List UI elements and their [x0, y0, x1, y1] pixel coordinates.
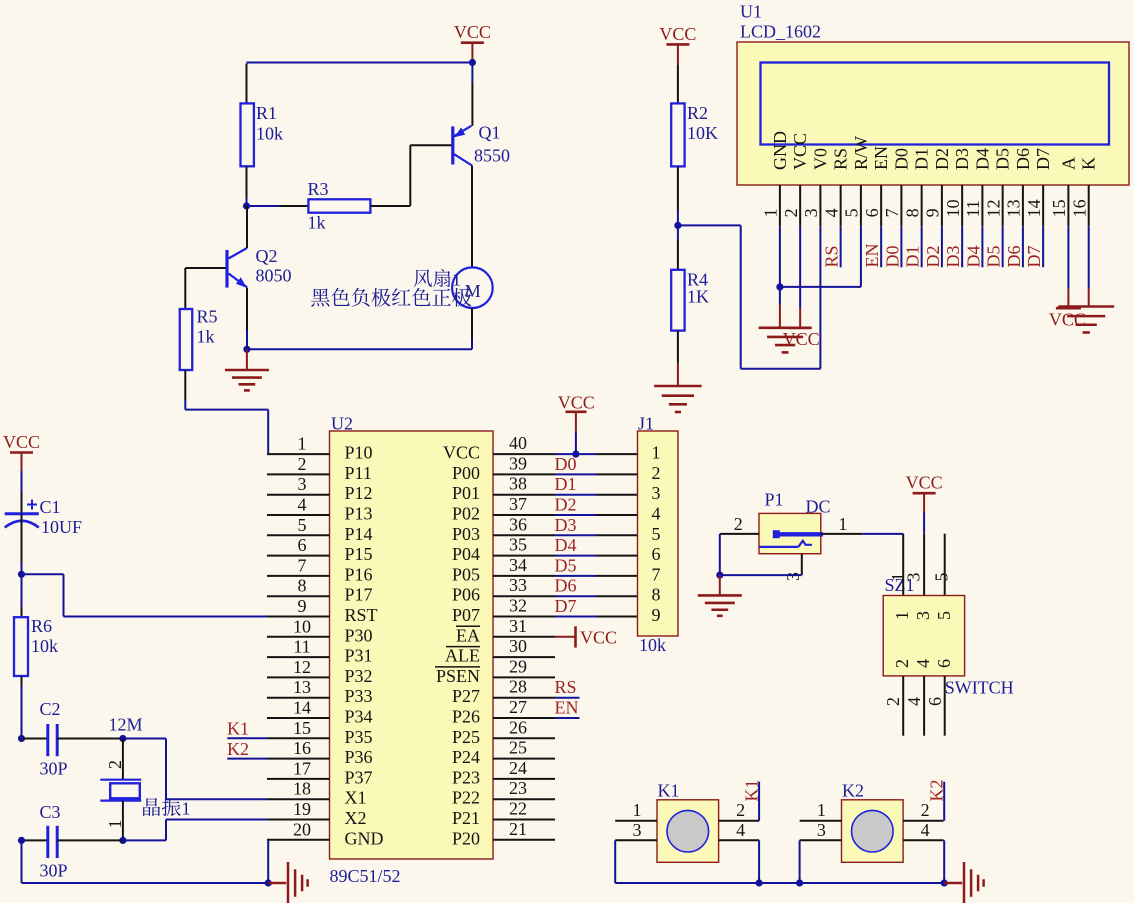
node R1/R3/Q2 [243, 202, 250, 209]
wire K1 pin3 to bus [614, 840, 616, 883]
svg-text:P13: P13 [345, 504, 373, 524]
LCD pin7 D0 net stub [900, 226, 902, 267]
svg-text:RS: RS [822, 245, 842, 267]
SZ1 pin 2 bottom [902, 676, 904, 736]
svg-text:P06: P06 [452, 585, 480, 605]
wire R3 to Q1 base [370, 205, 410, 207]
svg-text:R1: R1 [256, 103, 277, 123]
svg-text:D1: D1 [912, 148, 932, 170]
node crystal bottom [119, 837, 126, 844]
svg-text:P35: P35 [345, 727, 373, 747]
svg-text:8: 8 [652, 585, 661, 605]
LCD pin8 D1 net stub [921, 226, 923, 267]
LCD pin10 D3 net stub [961, 226, 963, 267]
svg-text:D5: D5 [555, 555, 577, 575]
svg-text:7: 7 [298, 555, 307, 575]
node Q2 emitter/ground [243, 346, 250, 353]
svg-text:2: 2 [736, 800, 745, 820]
svg-text:P12: P12 [345, 483, 373, 503]
U2 pin 36 P03 [493, 534, 555, 536]
ground (fan circuit) [246, 349, 248, 370]
svg-text:K2: K2 [227, 739, 249, 759]
SZ1 pin 5 top [944, 534, 946, 596]
wire U2 pin40 to J1 pin1 [555, 453, 597, 455]
svg-text:P31: P31 [345, 646, 373, 666]
svg-text:8: 8 [902, 208, 922, 217]
svg-text:VCC: VCC [790, 133, 810, 170]
wire R4 bottom lead [677, 331, 679, 364]
node crystal top [119, 735, 126, 742]
svg-text:2: 2 [883, 697, 903, 706]
resistor R1 [241, 103, 254, 166]
U2 pin 40 VCC [493, 453, 555, 455]
wire U2 pin32 to J1 pin9 [555, 616, 597, 618]
U2 pin 23 P22 [493, 798, 555, 800]
wire Q2 collector [246, 206, 248, 248]
svg-text:P21: P21 [452, 808, 480, 828]
svg-text:D3: D3 [555, 515, 577, 535]
svg-text:P24: P24 [452, 747, 480, 767]
U2 pin 39 P00 [493, 473, 555, 475]
switch SZ1 body [883, 596, 964, 676]
LCD pin13 D6 net stub [1022, 226, 1024, 267]
svg-text:2: 2 [781, 208, 801, 217]
wire motor to Q2 emitter node [247, 348, 472, 350]
svg-text:35: 35 [509, 535, 527, 555]
svg-text:18: 18 [293, 779, 311, 799]
svg-text:D6: D6 [1013, 148, 1033, 170]
svg-text:P34: P34 [345, 707, 373, 727]
svg-text:1: 1 [452, 270, 461, 290]
svg-text:2: 2 [892, 659, 912, 668]
svg-text:5: 5 [652, 524, 661, 544]
U2 pin 24 P23 [493, 778, 555, 780]
node V0 divider [674, 222, 681, 229]
svg-text:D4: D4 [555, 535, 577, 555]
wire U2 pin34 to J1 pin7 [555, 575, 597, 577]
label crystal name [143, 798, 160, 816]
svg-text:1: 1 [892, 611, 912, 620]
svg-text:P30: P30 [345, 625, 373, 645]
net label EN (pin27) [555, 717, 580, 719]
wire crystal top lead [122, 739, 124, 780]
ground (R4) [677, 364, 679, 386]
svg-text:K1: K1 [658, 781, 680, 801]
U2 pin 16 P36 [267, 758, 330, 760]
U2 pin 34 P05 [493, 575, 555, 577]
svg-text:7: 7 [882, 208, 902, 217]
U2 pin 31 EA [493, 636, 555, 638]
wire Q1 collector to motor [471, 166, 473, 268]
U2 pin 3 P12 [267, 494, 330, 496]
svg-text:19: 19 [293, 799, 311, 819]
capacitor C2 30P [22, 738, 48, 740]
svg-text:K: K [1079, 157, 1099, 170]
U2 pin 22 P21 [493, 819, 555, 821]
svg-text:K2: K2 [926, 780, 946, 802]
svg-text:9: 9 [652, 605, 661, 625]
U2 pin 26 P25 [493, 737, 555, 739]
wire C1 top lead [21, 471, 23, 492]
svg-text:1K: 1K [687, 287, 709, 307]
svg-text:P32: P32 [345, 666, 373, 686]
node GND bus [265, 879, 272, 886]
svg-text:D0: D0 [891, 148, 911, 170]
svg-text:17: 17 [293, 758, 311, 778]
svg-text:D2: D2 [555, 495, 577, 515]
wire crystal top to X1 [123, 738, 166, 740]
svg-text:29: 29 [509, 656, 527, 676]
U2 pin 6 P15 [267, 555, 330, 557]
svg-text:13: 13 [293, 677, 311, 697]
svg-text:P27: P27 [452, 686, 480, 706]
svg-text:89C51/52: 89C51/52 [330, 866, 401, 886]
wire R1 top lead [246, 64, 248, 104]
svg-text:D7: D7 [555, 596, 577, 616]
svg-text:9: 9 [923, 208, 943, 217]
wire K2 pin4 to bus [943, 840, 945, 883]
wire P1 pin2 down [719, 534, 721, 575]
wire X1 (pin18) [166, 798, 267, 800]
SZ1 pin 1 top [902, 534, 904, 596]
U2 pin 5 P14 [267, 534, 330, 536]
svg-text:8550: 8550 [474, 146, 510, 166]
U2 pin 14 P34 [267, 717, 330, 719]
svg-text:VCC: VCC [783, 329, 820, 349]
svg-text:P25: P25 [452, 727, 480, 747]
node VCC pin40 [572, 451, 579, 458]
U2 pin 30 ALE [493, 656, 555, 658]
LCD pin3 V0 wire [819, 226, 821, 368]
capacitor C1 10UF polarized [5, 512, 39, 515]
svg-text:D5: D5 [984, 246, 1004, 268]
U2 pin 8 P17 [267, 595, 330, 597]
wire R5 bottom to U2 pin1 [184, 370, 186, 400]
wire P1 pin3 to ground node [720, 574, 802, 576]
U2 pin 29 PSEN [493, 676, 555, 678]
LCD U1 body [737, 42, 1129, 185]
svg-text:P17: P17 [345, 585, 373, 605]
U2 pin 9 RST [267, 616, 330, 618]
svg-text:P16: P16 [345, 564, 373, 584]
svg-text:12: 12 [293, 657, 311, 677]
button K2 body [842, 800, 904, 863]
svg-text:34: 34 [509, 555, 527, 575]
svg-text:C2: C2 [40, 699, 61, 719]
svg-text:1: 1 [652, 443, 661, 463]
svg-text:R6: R6 [31, 616, 52, 636]
svg-text:4: 4 [298, 495, 307, 515]
wire node to RST [22, 573, 64, 575]
wire crystal bottom lead [122, 801, 124, 841]
svg-text:10k: 10k [31, 636, 58, 656]
svg-text:VCC: VCC [443, 443, 480, 463]
svg-text:1k: 1k [308, 213, 326, 233]
U2 pin 25 P24 [493, 758, 555, 760]
SZ1 pin 6 bottom [944, 676, 946, 736]
svg-text:2: 2 [734, 514, 743, 534]
svg-text:20: 20 [293, 819, 311, 839]
svg-text:1: 1 [838, 514, 847, 534]
svg-text:3: 3 [801, 208, 821, 217]
node K2 pin3 bus [796, 879, 803, 886]
U2 pin 4 P13 [267, 514, 330, 516]
svg-text:7: 7 [652, 564, 661, 584]
svg-text:1: 1 [633, 800, 642, 820]
LCD screen rectangle [761, 63, 1110, 145]
svg-text:2: 2 [652, 463, 661, 483]
svg-text:R2: R2 [687, 103, 708, 123]
SZ1 pin 3 top [923, 534, 925, 596]
wire U2 pin37 to J1 pin4 [555, 514, 597, 516]
svg-text:P36: P36 [345, 747, 373, 767]
U2 pin 11 P31 [267, 656, 330, 658]
wire node to R3 [247, 205, 280, 207]
resistor R3 [308, 199, 370, 212]
svg-text:K1: K1 [741, 780, 761, 802]
svg-text:RS: RS [555, 677, 577, 697]
ground (LCD pin1) [779, 305, 781, 328]
svg-text:21: 21 [509, 819, 527, 839]
svg-text:3: 3 [633, 820, 642, 840]
svg-text:16: 16 [293, 738, 311, 758]
svg-text:Q1: Q1 [479, 123, 501, 143]
U2 pin 7 P16 [267, 575, 330, 577]
transistor Q2 8050 [225, 250, 228, 288]
svg-text:1: 1 [761, 208, 781, 217]
LCD pin5 R/W to GND wire [860, 226, 862, 287]
svg-text:EN: EN [862, 244, 882, 268]
svg-text:D2: D2 [932, 148, 952, 170]
svg-text:4: 4 [904, 697, 924, 706]
svg-text:EA: EA [456, 625, 480, 645]
svg-text:D4: D4 [963, 246, 983, 268]
svg-text:P02: P02 [452, 504, 480, 524]
svg-text:D6: D6 [1004, 246, 1024, 268]
node button bus ground [941, 879, 948, 886]
svg-text:16: 16 [1070, 199, 1090, 217]
wire motor bottom [471, 308, 473, 340]
svg-text:EN: EN [871, 146, 891, 170]
svg-text:P01: P01 [452, 483, 480, 503]
wire K1 pin4 to bus [758, 840, 760, 883]
U2 pin 28 P27 [493, 697, 555, 699]
MCU U2 body [330, 431, 494, 859]
svg-text:33: 33 [509, 575, 527, 595]
svg-text:D1: D1 [555, 474, 577, 494]
power VCC down (LCD pin15) [1067, 289, 1069, 309]
svg-text:2: 2 [298, 454, 307, 474]
node C2 left [18, 735, 25, 742]
svg-text:6: 6 [298, 535, 307, 555]
svg-text:1: 1 [817, 800, 826, 820]
node K1 pin4 bus [756, 879, 763, 886]
U2 pin 18 X1 [267, 798, 330, 800]
net label RS (pin28) [555, 697, 580, 699]
node C1/R6/RST [18, 571, 25, 578]
svg-text:D4: D4 [972, 148, 992, 170]
svg-text:10: 10 [943, 199, 963, 217]
svg-text:D5: D5 [993, 148, 1013, 170]
svg-text:3: 3 [298, 474, 307, 494]
wire R5 top lead [184, 268, 186, 309]
svg-text:RST: RST [345, 605, 378, 625]
svg-text:VCC: VCC [659, 24, 696, 44]
U2 pin 20 GND [267, 839, 330, 841]
U2 pin 37 P02 [493, 514, 555, 516]
U2 pin 13 P33 [267, 697, 330, 699]
LCD pin14 D7 net stub [1042, 226, 1044, 267]
svg-text:3: 3 [783, 572, 803, 581]
svg-text:RS: RS [831, 148, 851, 170]
svg-text:3: 3 [904, 573, 924, 582]
svg-text:D7: D7 [1033, 148, 1053, 170]
LCD pin15 A wire [1067, 226, 1069, 288]
wire U2 pin39 to J1 pin2 [555, 473, 597, 475]
SZ1 pin 4 bottom [923, 676, 925, 736]
svg-text:P05: P05 [452, 564, 480, 584]
svg-text:P37: P37 [345, 767, 373, 787]
svg-text:P11: P11 [345, 463, 372, 483]
svg-text:4: 4 [652, 504, 661, 524]
svg-text:D0: D0 [555, 454, 577, 474]
connector P1 body [759, 513, 821, 553]
U2 pin 2 P11 [267, 473, 330, 475]
resistor R6 [14, 617, 28, 676]
svg-text:X1: X1 [345, 788, 367, 808]
wire VCC rail to R1 [247, 62, 473, 64]
U2 pin 1 P10 [267, 453, 330, 455]
LCD pin6 EN net stub [880, 226, 882, 267]
connector J1 body [638, 431, 679, 636]
wire crystal bottom to X2 [123, 839, 166, 841]
ground (P1) [719, 575, 721, 595]
U2 pin 38 P01 [493, 494, 555, 496]
wire GND (pin20) [267, 840, 269, 883]
U2 pin 33 P06 [493, 595, 555, 597]
svg-text:26: 26 [509, 717, 527, 737]
svg-text:P22: P22 [452, 788, 480, 808]
wire Q2 base [185, 267, 225, 269]
svg-text:C3: C3 [40, 802, 61, 822]
wire Q2 emitter down [246, 288, 248, 330]
svg-text:SWITCH: SWITCH [945, 678, 1014, 698]
U2 pin 21 P20 [493, 839, 555, 841]
svg-text:4: 4 [736, 820, 745, 840]
svg-text:PSEN: PSEN [436, 666, 480, 686]
wire V0 node to LCD pin3 [678, 224, 741, 226]
wire U2 pin38 to J1 pin3 [555, 494, 597, 496]
svg-text:36: 36 [509, 514, 527, 534]
svg-text:1: 1 [182, 799, 191, 819]
motor M fan [452, 267, 493, 308]
svg-text:P07: P07 [452, 605, 480, 625]
svg-text:10: 10 [293, 616, 311, 636]
svg-text:11: 11 [963, 200, 983, 217]
svg-text:10K: 10K [687, 123, 718, 143]
svg-text:1k: 1k [197, 327, 215, 347]
svg-text:8050: 8050 [256, 266, 292, 286]
svg-text:GND: GND [345, 828, 384, 848]
svg-text:14: 14 [293, 698, 311, 718]
ground (buttons) [944, 882, 962, 885]
node C3 left [18, 837, 25, 844]
ground (LCD pin16) [1088, 289, 1090, 307]
svg-text:P23: P23 [452, 767, 480, 787]
svg-text:10k: 10k [256, 124, 283, 144]
svg-text:31: 31 [509, 616, 527, 636]
wire C1 bottom lead [21, 514, 23, 562]
svg-text:6: 6 [862, 208, 882, 217]
svg-text:R5: R5 [197, 307, 218, 327]
wire R2 top lead [677, 64, 679, 103]
P1 barrel symbol [773, 530, 780, 538]
wire X2 (pin19) [166, 819, 267, 821]
svg-text:EN: EN [555, 698, 579, 718]
svg-text:P26: P26 [452, 707, 480, 727]
ground (U2 GND) [268, 882, 286, 885]
svg-text:LCD_1602: LCD_1602 [740, 22, 821, 42]
LCD pin12 D5 net stub [1002, 226, 1004, 267]
svg-text:15: 15 [293, 718, 311, 738]
svg-text:25: 25 [509, 738, 527, 758]
svg-text:VCC: VCC [1049, 310, 1086, 330]
svg-text:R/W: R/W [851, 136, 871, 170]
power VCC (EA pin31) [555, 636, 576, 638]
wire R6 bottom lead [21, 676, 23, 686]
svg-text:5: 5 [842, 208, 862, 217]
wire VCC to Q1 emitter [471, 63, 473, 84]
resistor R4 [671, 270, 684, 331]
svg-text:6: 6 [925, 697, 945, 706]
svg-text:VCC: VCC [454, 22, 491, 42]
resistor R2 [671, 103, 684, 166]
LCD pin2 VCC wire [799, 226, 801, 308]
svg-text:5: 5 [932, 573, 952, 582]
svg-text:VCC: VCC [906, 473, 943, 493]
svg-text:D3: D3 [952, 148, 972, 170]
net label K1 wire up [758, 782, 760, 821]
svg-text:Q2: Q2 [256, 246, 278, 266]
net label K1 (pin15) [227, 737, 267, 739]
svg-text:P1: P1 [765, 490, 784, 510]
LCD pin4 RS net stub [840, 226, 842, 267]
svg-text:40: 40 [509, 433, 527, 453]
U2 pin 32 P07 [493, 616, 555, 618]
U2 pin 27 P26 [493, 717, 555, 719]
svg-text:R3: R3 [308, 179, 329, 199]
svg-text:K2: K2 [842, 781, 864, 801]
svg-text:P33: P33 [345, 686, 373, 706]
svg-text:P15: P15 [345, 544, 373, 564]
svg-text:V0: V0 [810, 148, 830, 170]
svg-text:2: 2 [105, 760, 125, 769]
svg-text:2: 2 [921, 800, 930, 820]
svg-text:28: 28 [509, 677, 527, 697]
svg-text:8: 8 [298, 576, 307, 596]
U2 pin 10 P30 [267, 636, 330, 638]
svg-text:3: 3 [913, 611, 933, 620]
svg-text:P03: P03 [452, 524, 480, 544]
svg-text:38: 38 [509, 474, 527, 494]
svg-text:27: 27 [509, 697, 527, 717]
svg-text:P14: P14 [345, 524, 373, 544]
wire R6 top lead [21, 574, 23, 607]
wire P1 pin1 to SZ1 [862, 533, 903, 535]
svg-text:C1: C1 [40, 497, 61, 517]
LCD pin11 D4 net stub [981, 226, 983, 267]
wire K2 pin3 to bus [799, 840, 801, 883]
